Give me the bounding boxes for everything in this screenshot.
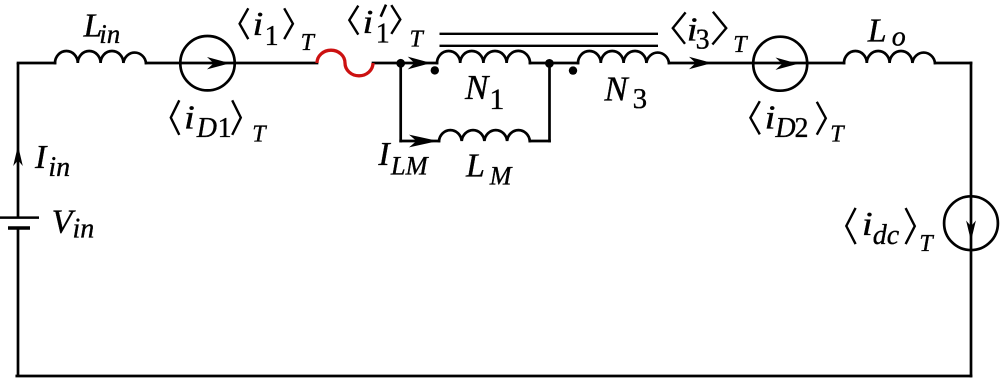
svg-text:T: T <box>919 231 934 257</box>
label <iD1>T <box>171 98 267 148</box>
svg-text:in: in <box>99 19 120 49</box>
label <i3>T <box>673 10 748 58</box>
label <i1'>T <box>349 3 424 53</box>
svg-text:in: in <box>73 214 95 245</box>
current source U iD1 circle <box>180 36 234 90</box>
arrow inside iD1 <box>207 57 230 69</box>
svg-text:i: i <box>363 3 374 41</box>
winding N3 <box>578 51 669 63</box>
wire squiggle-end to N1 winding (node A region) <box>373 62 437 65</box>
wire left vertical upper (top rail to Vin plus plate) <box>17 63 20 217</box>
inductor Lin <box>55 51 146 63</box>
svg-text:I: I <box>377 136 391 173</box>
svg-text:1: 1 <box>218 113 232 144</box>
wire Lin to red squiggle (through iD1 source) <box>146 62 317 65</box>
arrow inside iD2 <box>776 58 799 70</box>
svg-text:D: D <box>774 113 795 144</box>
svg-text:i: i <box>862 204 873 242</box>
arrow at node A toward N1 <box>408 57 431 70</box>
arrow Iin up <box>13 146 23 167</box>
svg-text:i: i <box>184 98 195 136</box>
label LM <box>465 147 513 190</box>
wire N1 to N3 (node B region) <box>530 62 578 65</box>
wire right vertical <box>970 63 973 376</box>
wire LM branch bottom left segment <box>401 140 439 143</box>
svg-text:i: i <box>253 5 264 43</box>
arrow idc down <box>966 221 976 242</box>
transformer core line top <box>440 33 659 35</box>
svg-text:3: 3 <box>696 25 710 56</box>
svg-text:2: 2 <box>795 113 809 144</box>
label <iD2>T <box>750 98 845 148</box>
label <i1>T <box>240 5 316 56</box>
svg-text:3: 3 <box>633 83 648 115</box>
node B junction dot <box>545 59 554 68</box>
label N1 <box>464 68 504 116</box>
wire bottom rail <box>17 375 971 378</box>
label N3 <box>603 70 647 116</box>
polarity dot N1 <box>431 66 439 74</box>
current source U iD2 circle <box>753 37 807 91</box>
svg-text:D: D <box>196 113 217 144</box>
current source U idc circle <box>944 196 998 250</box>
svg-text:1: 1 <box>489 83 504 116</box>
wire N3 to Lo (through iD2 source) <box>669 62 844 65</box>
wire left vertical lower (Vin minus plate to bottom rail) <box>17 228 20 376</box>
node A junction dot <box>396 59 405 68</box>
red squiggle i1' <box>317 50 373 76</box>
svg-text:I: I <box>34 139 48 176</box>
svg-text:in: in <box>48 152 70 183</box>
svg-text:T: T <box>410 27 425 53</box>
transformer core line bottom <box>440 45 659 47</box>
polarity dot N3 <box>569 66 577 74</box>
svg-text:dc: dc <box>873 220 900 251</box>
label Vin <box>52 204 95 245</box>
inductor Lo <box>844 51 935 63</box>
svg-text:o: o <box>892 22 906 53</box>
svg-text:L: L <box>867 13 887 50</box>
wire LM branch right vertical <box>548 63 551 141</box>
svg-text:N: N <box>464 68 490 107</box>
svg-text:1: 1 <box>376 18 390 49</box>
battery Vin plate long <box>0 216 39 219</box>
inductor LM <box>439 130 530 141</box>
svg-text:LM: LM <box>390 150 430 180</box>
svg-text:M: M <box>489 162 513 191</box>
label Lo <box>867 13 906 53</box>
svg-text:T: T <box>830 122 845 148</box>
svg-text:T: T <box>252 122 267 148</box>
svg-text:T: T <box>733 32 748 58</box>
svg-text:L: L <box>465 147 485 184</box>
wire Lo to right corner <box>935 62 971 65</box>
arrow before iD2 <box>689 57 712 69</box>
svg-text:1: 1 <box>265 21 279 52</box>
wire LM branch bottom right segment <box>530 140 550 143</box>
arrow on LM branch <box>409 135 438 148</box>
label Lin <box>83 8 121 49</box>
wire LM branch left vertical <box>399 63 402 141</box>
battery Vin plate short thick <box>8 226 30 230</box>
wire top rail: left corner to Lin <box>18 62 55 65</box>
winding N1 <box>437 51 530 63</box>
svg-text:N: N <box>603 70 629 109</box>
label <idc>T <box>846 204 934 256</box>
svg-text:T: T <box>301 30 316 56</box>
svg-text:i: i <box>765 98 776 136</box>
label ILM <box>377 136 429 180</box>
label Iin <box>34 139 70 183</box>
